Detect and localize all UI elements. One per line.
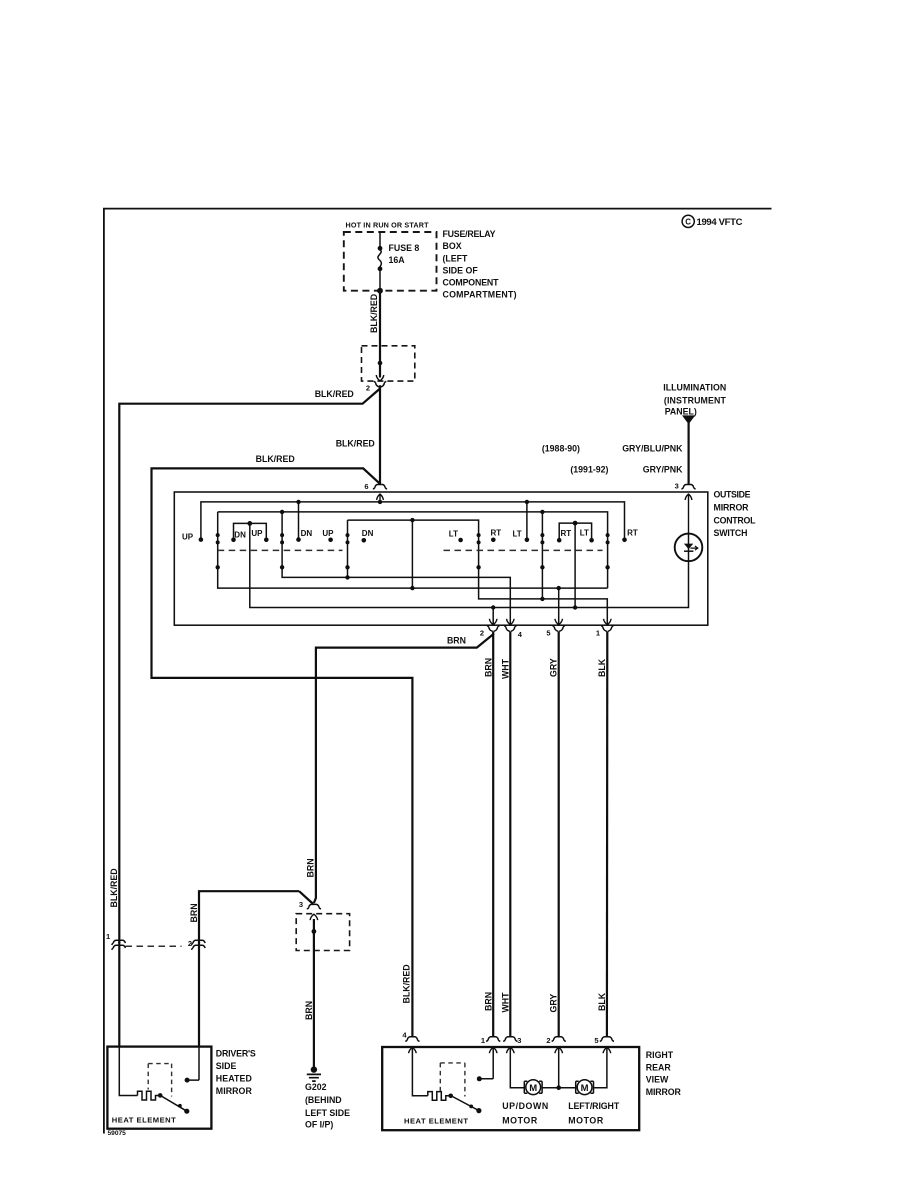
svg-text:RT: RT: [561, 529, 572, 538]
svg-text:WHT: WHT: [500, 992, 510, 1013]
svg-text:BRN: BRN: [189, 903, 199, 922]
svg-text:UP: UP: [322, 529, 334, 538]
svg-text:RIGHT: RIGHT: [646, 1050, 674, 1060]
svg-text:HEATED: HEATED: [216, 1074, 252, 1084]
svg-text:1994 VFTC: 1994 VFTC: [697, 217, 743, 228]
svg-text:VIEW: VIEW: [646, 1075, 669, 1085]
svg-text:ILLUMINATION: ILLUMINATION: [663, 383, 726, 393]
svg-text:MOTOR: MOTOR: [502, 1115, 538, 1125]
svg-text:2: 2: [366, 384, 370, 393]
svg-text:(LEFT: (LEFT: [443, 253, 469, 263]
svg-text:UP: UP: [182, 532, 194, 541]
svg-text:MOTOR: MOTOR: [568, 1115, 604, 1125]
svg-text:WHT: WHT: [500, 658, 510, 679]
svg-text:GRY: GRY: [549, 994, 559, 1013]
svg-text:SWITCH: SWITCH: [714, 528, 748, 538]
svg-text:2: 2: [546, 1036, 550, 1045]
svg-text:UP: UP: [251, 529, 263, 538]
svg-text:(INSTRUMENT: (INSTRUMENT: [664, 395, 727, 405]
svg-text:SIDE OF: SIDE OF: [443, 265, 479, 275]
svg-text:BLK/RED: BLK/RED: [256, 454, 295, 464]
svg-text:DN: DN: [362, 529, 374, 538]
svg-text:2: 2: [480, 629, 484, 638]
svg-text:RT: RT: [491, 529, 502, 538]
svg-text:MIRROR: MIRROR: [646, 1087, 682, 1097]
svg-text:LT: LT: [513, 530, 522, 539]
svg-text:COMPONENT: COMPONENT: [443, 277, 500, 287]
svg-text:LT: LT: [580, 529, 589, 538]
svg-text:3: 3: [675, 482, 679, 491]
svg-text:BLK/RED: BLK/RED: [109, 868, 119, 907]
svg-text:DN: DN: [301, 529, 313, 538]
svg-text:OUTSIDE: OUTSIDE: [714, 490, 751, 500]
svg-text:C: C: [685, 218, 691, 227]
svg-text:BLK: BLK: [597, 658, 607, 677]
svg-text:(BEHIND: (BEHIND: [305, 1095, 342, 1105]
svg-text:GRY/PNK: GRY/PNK: [643, 465, 683, 475]
svg-text:1: 1: [481, 1036, 485, 1045]
svg-text:GRY/BLU/PNK: GRY/BLU/PNK: [622, 444, 683, 454]
svg-text:BRN: BRN: [304, 1001, 314, 1020]
svg-text:BLK: BLK: [597, 992, 607, 1011]
svg-text:5: 5: [594, 1036, 598, 1045]
svg-text:RT: RT: [627, 529, 638, 538]
svg-text:16A: 16A: [389, 255, 406, 265]
svg-text:BRN: BRN: [483, 658, 493, 677]
svg-text:G202: G202: [305, 1082, 327, 1092]
svg-text:REAR: REAR: [646, 1062, 672, 1072]
svg-text:BRN: BRN: [447, 636, 466, 646]
svg-text:PANEL): PANEL): [665, 407, 697, 417]
svg-text:COMPARTMENT): COMPARTMENT): [443, 289, 517, 299]
svg-text:HEAT ELEMENT: HEAT ELEMENT: [404, 1117, 468, 1126]
svg-text:BLK/RED: BLK/RED: [315, 389, 354, 399]
svg-text:BRN: BRN: [305, 858, 315, 877]
svg-text:3: 3: [517, 1036, 521, 1045]
svg-text:GRY: GRY: [549, 658, 559, 677]
svg-text:DN: DN: [234, 531, 246, 540]
svg-text:HOT IN RUN OR START: HOT IN RUN OR START: [346, 221, 430, 230]
svg-text:HEAT ELEMENT: HEAT ELEMENT: [112, 1115, 176, 1124]
svg-text:M: M: [529, 1083, 537, 1094]
svg-text:DRIVER'S: DRIVER'S: [216, 1048, 256, 1058]
svg-text:SIDE: SIDE: [216, 1061, 237, 1071]
svg-text:LEFT/RIGHT: LEFT/RIGHT: [568, 1101, 620, 1111]
svg-text:6: 6: [364, 482, 368, 491]
svg-text:LT: LT: [449, 530, 458, 539]
svg-text:(1991-92): (1991-92): [570, 465, 608, 475]
svg-text:59075: 59075: [108, 1130, 127, 1137]
svg-text:1: 1: [596, 629, 600, 638]
svg-text:UP/DOWN: UP/DOWN: [502, 1101, 548, 1111]
svg-text:2: 2: [188, 939, 192, 948]
svg-text:1: 1: [106, 932, 110, 941]
svg-text:M: M: [581, 1083, 589, 1094]
svg-text:BLK/RED: BLK/RED: [369, 294, 379, 333]
svg-text:(1988-90): (1988-90): [542, 444, 580, 454]
svg-text:LEFT SIDE: LEFT SIDE: [305, 1108, 350, 1118]
svg-text:FUSE/RELAY: FUSE/RELAY: [443, 229, 496, 239]
svg-text:BLK/RED: BLK/RED: [402, 964, 412, 1003]
svg-text:MIRROR: MIRROR: [216, 1086, 253, 1096]
svg-text:BOX: BOX: [443, 241, 462, 251]
svg-text:FUSE 8: FUSE 8: [389, 243, 420, 253]
svg-text:BLK/RED: BLK/RED: [336, 439, 375, 449]
svg-text:BRN: BRN: [483, 992, 493, 1011]
svg-text:CONTROL: CONTROL: [714, 515, 757, 525]
svg-text:OF I/P): OF I/P): [305, 1120, 333, 1130]
svg-text:3: 3: [299, 900, 303, 909]
svg-text:5: 5: [546, 629, 550, 638]
svg-text:MIRROR: MIRROR: [714, 503, 750, 513]
